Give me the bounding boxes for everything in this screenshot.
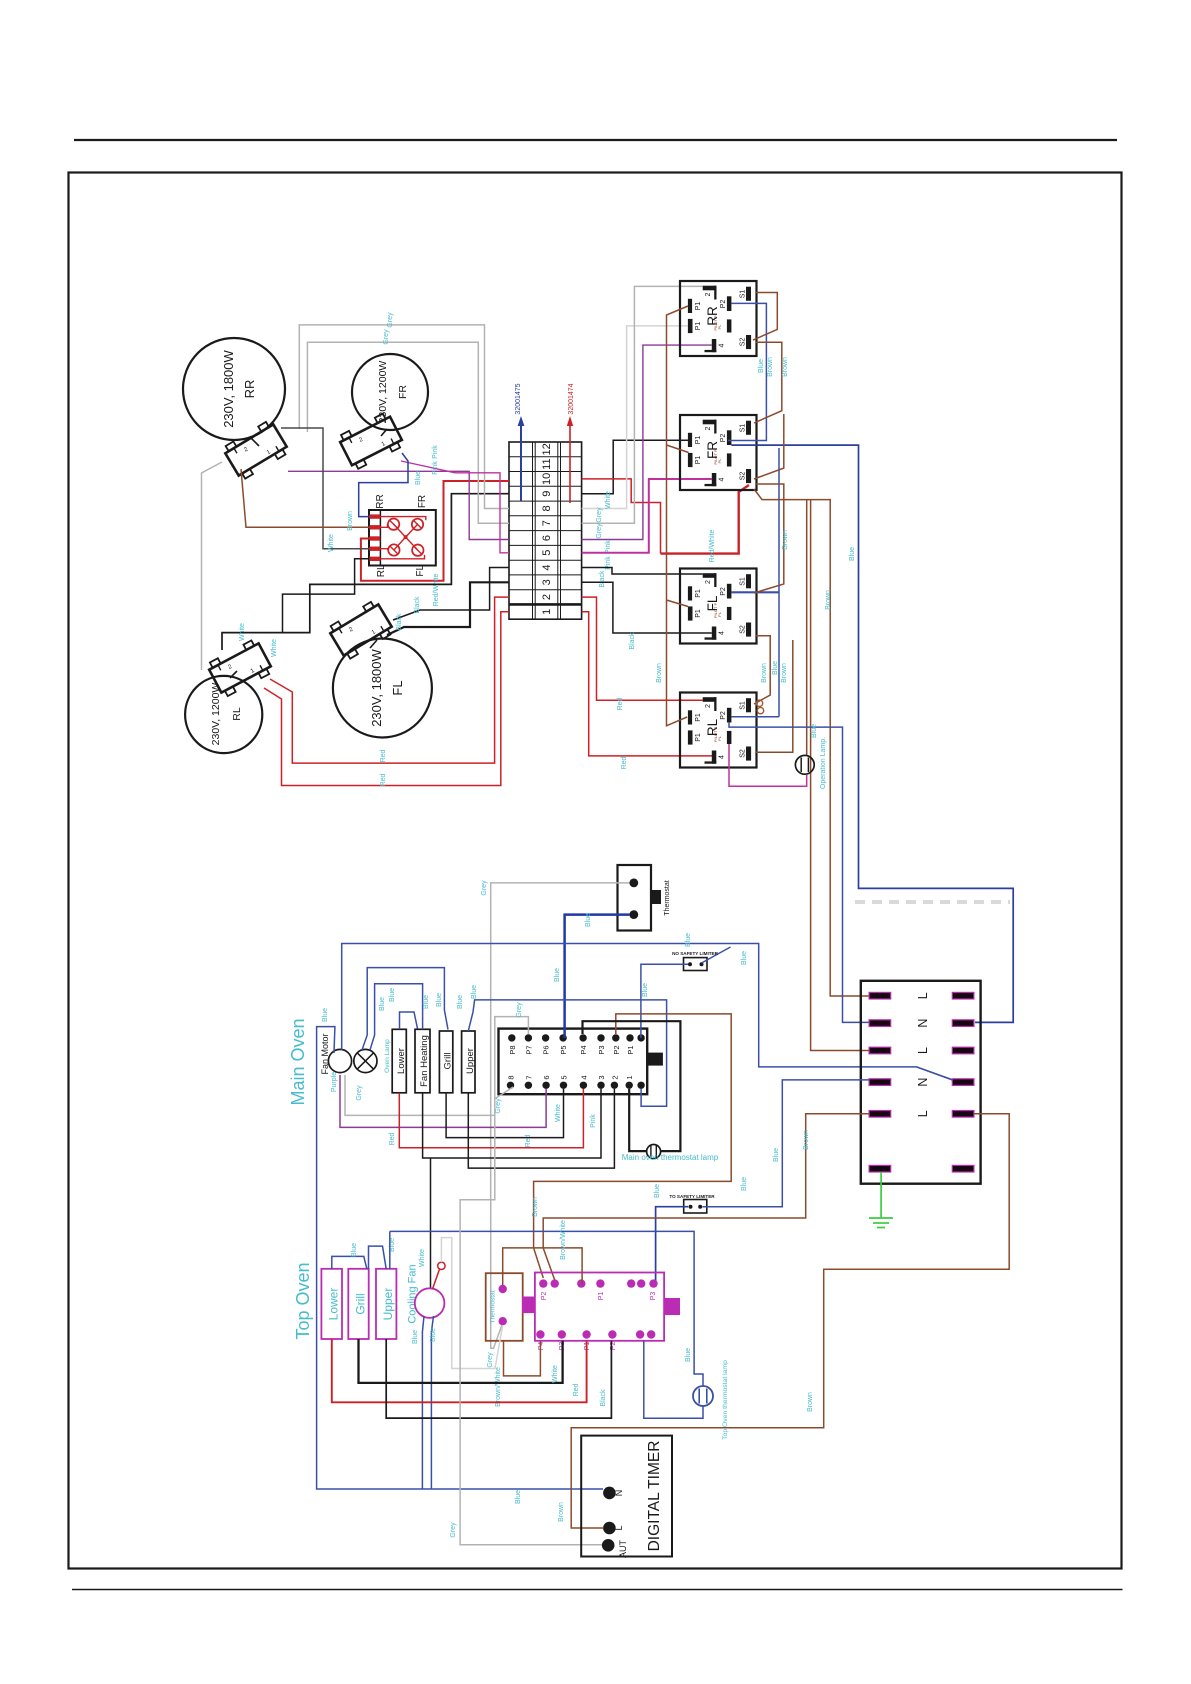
terminal block column lines bbox=[532, 442, 534, 619]
wire brown chain to FR S2 bbox=[754, 414, 784, 479]
mains terminal strip outline bbox=[861, 981, 981, 1184]
energy regulator RR outline bbox=[680, 281, 757, 356]
top rule line bbox=[74, 139, 1117, 141]
svg-text:Brown: Brown bbox=[347, 511, 354, 531]
wire brown P1 stub FR bbox=[667, 445, 689, 453]
wire red terminal1 to connector RL bbox=[264, 612, 509, 786]
svg-text:Black: Black bbox=[600, 1389, 607, 1407]
svg-text:Blue: Blue bbox=[654, 1184, 661, 1198]
svg-text:P1: P1 bbox=[695, 733, 702, 742]
svg-text:Main oven thermostat lamp: Main oven thermostat lamp bbox=[622, 1153, 719, 1162]
svg-text:White: White bbox=[552, 1365, 559, 1383]
svg-text:L: L bbox=[614, 1525, 624, 1530]
svg-text:White: White bbox=[239, 623, 246, 641]
svg-text:Pink: Pink bbox=[432, 461, 439, 475]
svg-text:Black: Black bbox=[414, 596, 421, 614]
wire grey terminal7 to connector RR bbox=[307, 342, 509, 523]
wire blue safety limiter tap bbox=[702, 947, 731, 963]
top oven selector switch outline bbox=[535, 1273, 664, 1341]
svg-text:Grey: Grey bbox=[516, 1002, 523, 1018]
svg-text:White: White bbox=[555, 1104, 562, 1122]
svg-text:32001474: 32001474 bbox=[568, 383, 575, 414]
svg-text:P1: P1 bbox=[626, 1045, 635, 1054]
svg-text:Red: Red bbox=[621, 756, 628, 769]
svg-text:230V, 1800W: 230V, 1800W bbox=[369, 648, 384, 726]
svg-text:Red/White: Red/White bbox=[433, 574, 440, 607]
svg-text:Grey: Grey bbox=[450, 1522, 457, 1538]
svg-text:Blue: Blue bbox=[811, 724, 818, 738]
svg-text:P6: P6 bbox=[542, 1045, 551, 1054]
wire blue limiter2 to P3 bbox=[656, 1207, 688, 1284]
connector for element RL bbox=[206, 638, 273, 698]
wire black terminal9 to connector RL bbox=[222, 494, 509, 650]
svg-text:Upper: Upper bbox=[381, 1288, 395, 1321]
earth symbol bbox=[869, 1217, 893, 1219]
svg-text:P2: P2 bbox=[720, 300, 727, 309]
svg-text:4: 4 bbox=[719, 631, 726, 635]
svg-text:Grey: Grey bbox=[387, 312, 394, 328]
top oven thermostat outline bbox=[486, 1273, 523, 1341]
svg-text:Red: Red bbox=[573, 1383, 580, 1396]
svg-text:L: L bbox=[916, 992, 930, 999]
wire red/white terminal10 to pilot bar3 bbox=[361, 481, 509, 581]
element box Fan Heating bbox=[415, 1029, 430, 1093]
wire blue lamp feed bbox=[390, 1231, 703, 1386]
svg-text:Grey: Grey bbox=[596, 523, 603, 539]
pilot neon lamps bbox=[388, 518, 399, 529]
wire blue FR P2 to strip bbox=[731, 445, 1013, 1022]
wire black pilot bar5 to left bbox=[283, 559, 370, 633]
svg-text:P1: P1 bbox=[695, 456, 702, 465]
svg-text:3: 3 bbox=[597, 1075, 606, 1079]
wire black terminal3 to connector FL bbox=[387, 582, 509, 635]
wire brown terminal strip row3 bbox=[811, 500, 869, 1051]
pilot hook bar4 bbox=[380, 549, 388, 550]
svg-text:6: 6 bbox=[542, 1075, 551, 1079]
wire red terminal2 to switch RL 2 bbox=[582, 597, 703, 700]
wire grey terminal7 to switch RR 2 bbox=[582, 286, 703, 523]
wire black terminal4 to switch FL 2 bbox=[582, 568, 703, 575]
wire blue RL P2 stub bbox=[731, 716, 779, 718]
terminal block row lines bbox=[509, 456, 582, 458]
svg-text:Brown: Brown bbox=[558, 1502, 565, 1522]
svg-text:Blue: Blue bbox=[758, 359, 765, 373]
svg-text:Blue: Blue bbox=[415, 471, 422, 485]
svg-text:2: 2 bbox=[348, 626, 355, 633]
svg-text:Blue: Blue bbox=[322, 1008, 329, 1022]
wire black terminal4 to connector FL bbox=[393, 568, 509, 621]
wire blue lower top to grill top bbox=[332, 1256, 367, 1269]
svg-text:Blue: Blue bbox=[351, 1243, 358, 1257]
svg-text:2: 2 bbox=[705, 704, 712, 708]
wire blue safety limiter to P1 bbox=[641, 964, 688, 1038]
svg-text:9: 9 bbox=[541, 491, 553, 497]
svg-text:S1: S1 bbox=[740, 424, 747, 433]
svg-text:5: 5 bbox=[541, 550, 553, 556]
digital timer outline bbox=[581, 1436, 672, 1557]
pilot hook bar2 bbox=[380, 524, 388, 527]
svg-text:5: 5 bbox=[560, 1075, 569, 1079]
svg-text:Red: Red bbox=[389, 1132, 396, 1145]
svg-text:2: 2 bbox=[705, 426, 712, 430]
svg-text:7: 7 bbox=[524, 1075, 533, 1079]
svg-text:PL: PL bbox=[717, 324, 722, 330]
svg-text:P8: P8 bbox=[508, 1045, 517, 1054]
jumper plugs at RL S1 bbox=[756, 700, 762, 706]
svg-text:P1: P1 bbox=[695, 609, 702, 618]
svg-text:RL: RL bbox=[231, 707, 243, 721]
svg-text:Brown: Brown bbox=[781, 663, 788, 683]
svg-text:P1: P1 bbox=[695, 589, 702, 598]
svg-text:Brown: Brown bbox=[782, 530, 789, 550]
element box Lower top bbox=[321, 1269, 342, 1339]
svg-text:P4: P4 bbox=[538, 1342, 545, 1351]
svg-text:Upper: Upper bbox=[465, 1048, 476, 1074]
wire blue oven lamp to fan heating bbox=[370, 984, 423, 1050]
svg-text:4: 4 bbox=[541, 564, 553, 570]
energy regulator RL outline bbox=[680, 693, 757, 768]
svg-text:8: 8 bbox=[541, 505, 553, 511]
wire grey terminal8 to connector RR bbox=[299, 325, 509, 509]
wire grey pin8 to fan motor bbox=[345, 1075, 513, 1115]
wire red/white thick segment bbox=[661, 485, 750, 554]
wire purple fan motor to pin6 bbox=[340, 1075, 546, 1127]
svg-text:Pink: Pink bbox=[590, 1114, 597, 1128]
main oven thermostat lamp bbox=[647, 1145, 661, 1159]
wire blue RL P2 to strip N bbox=[729, 722, 869, 1022]
wire brown RR S1 to S2 bbox=[753, 293, 777, 341]
wire red lower bottom to switch bbox=[332, 1339, 587, 1402]
svg-text:P4: P4 bbox=[579, 1045, 588, 1054]
wire element FL to connector bbox=[370, 640, 377, 648]
wire pink RL to operation lamp bbox=[729, 744, 807, 786]
connector for element FL bbox=[327, 599, 395, 660]
wire black terminal9 to switch FR P1 bbox=[582, 440, 688, 493]
svg-text:N: N bbox=[614, 1490, 624, 1497]
arrow 32001475 bbox=[520, 424, 522, 501]
svg-text:P2: P2 bbox=[720, 587, 727, 596]
wire element RL to connector bbox=[230, 671, 237, 678]
svg-text:P1: P1 bbox=[598, 1292, 605, 1301]
wire blue connector FR to pilot bar1 bbox=[359, 453, 408, 517]
svg-text:FL: FL bbox=[415, 565, 426, 577]
svg-text:Pink: Pink bbox=[432, 445, 439, 459]
svg-text:S2: S2 bbox=[740, 472, 747, 481]
svg-text:230V, 1800W: 230V, 1800W bbox=[221, 349, 236, 427]
svg-text:Blue: Blue bbox=[379, 997, 386, 1011]
wire blue fan motor to mains bbox=[342, 944, 953, 1081]
wire red terminal1 to switch RL 4 bbox=[582, 612, 712, 756]
svg-text:1: 1 bbox=[541, 609, 553, 615]
svg-text:Grey: Grey bbox=[495, 1098, 502, 1114]
heating element RL 230V 1200W bbox=[185, 676, 262, 753]
svg-text:Top Oven thermostat lamp: Top Oven thermostat lamp bbox=[722, 1360, 729, 1440]
wire brown P1 stub FL bbox=[667, 600, 689, 607]
wire white grill bottom to switch bbox=[359, 1339, 563, 1383]
svg-text:Red: Red bbox=[380, 773, 387, 786]
svg-text:FL: FL bbox=[390, 680, 405, 695]
svg-text:PL: PL bbox=[717, 458, 722, 464]
svg-text:P7: P7 bbox=[524, 1045, 533, 1054]
svg-text:NO SAFETY LIMITER: NO SAFETY LIMITER bbox=[672, 951, 719, 956]
svg-text:Grey: Grey bbox=[356, 1085, 363, 1101]
svg-text:Blue: Blue bbox=[515, 1490, 522, 1504]
svg-text:RR: RR bbox=[375, 494, 386, 508]
wire black lamp to P4 bbox=[583, 1021, 681, 1151]
wire brown RR S2 to FR S1 bbox=[754, 342, 782, 423]
svg-text:White: White bbox=[419, 1249, 426, 1267]
wire blue upper top to lamp feed bbox=[389, 1231, 391, 1269]
wire blue lower to fan heating hop bbox=[400, 1012, 418, 1029]
svg-text:Grey: Grey bbox=[481, 880, 488, 896]
heating element FR 230V 1200W bbox=[352, 354, 428, 430]
svg-text:P2: P2 bbox=[720, 434, 727, 443]
pilot cross wiring bbox=[394, 524, 406, 537]
svg-text:AUT: AUT bbox=[618, 1539, 628, 1558]
element box Lower main bbox=[392, 1029, 406, 1093]
wire white terminal8 to switch RR P1 bbox=[582, 326, 688, 509]
wire pink terminal6 to switch RR 4 bbox=[582, 345, 712, 539]
svg-text:Blue: Blue bbox=[554, 968, 561, 982]
wire black cooling fan supply bbox=[430, 1158, 432, 1289]
svg-text:Blue: Blue bbox=[685, 933, 692, 947]
svg-text:Blue: Blue bbox=[642, 983, 649, 997]
svg-text:RL: RL bbox=[376, 564, 387, 577]
svg-text:Brown/White: Brown/White bbox=[560, 1220, 567, 1260]
main oven selector switch outline bbox=[499, 1029, 648, 1095]
svg-text:P2: P2 bbox=[612, 1045, 621, 1054]
energy regulator FR outline bbox=[680, 415, 757, 490]
wire brown thermostat to P4 bbox=[504, 1341, 541, 1376]
svg-text:4: 4 bbox=[719, 343, 726, 347]
wire pink terminal5 to switch FR 4 bbox=[582, 479, 712, 553]
element box Grill top bbox=[348, 1269, 368, 1339]
svg-text:Brown: Brown bbox=[656, 663, 663, 683]
svg-text:2: 2 bbox=[227, 664, 233, 671]
wire blue fan motor to timer N bbox=[317, 1027, 603, 1489]
svg-text:S2: S2 bbox=[740, 625, 747, 634]
svg-text:Blue: Blue bbox=[772, 661, 779, 675]
wire brown strip L to top oven P2 bbox=[543, 1114, 869, 1280]
connector for element FR bbox=[337, 411, 404, 470]
svg-text:Blue: Blue bbox=[423, 995, 430, 1009]
svg-text:Thermostat: Thermostat bbox=[490, 1290, 497, 1323]
svg-text:Blue: Blue bbox=[457, 995, 464, 1009]
svg-text:Blue: Blue bbox=[741, 951, 748, 965]
svg-text:P1: P1 bbox=[695, 322, 702, 331]
wire brown connector RR to pilot bar2 bbox=[241, 469, 370, 527]
svg-text:Brown/White: Brown/White bbox=[495, 1367, 502, 1407]
svg-text:White: White bbox=[328, 534, 335, 552]
svg-text:Blue: Blue bbox=[412, 1330, 419, 1344]
wire blue cooling fan lead a bbox=[422, 1316, 424, 1489]
svg-text:N: N bbox=[916, 1078, 930, 1087]
svg-text:12: 12 bbox=[541, 443, 553, 455]
svg-text:FR: FR bbox=[397, 385, 409, 399]
svg-text:P1: P1 bbox=[695, 436, 702, 445]
wire blue FL P2 stub bbox=[731, 591, 779, 593]
svg-text:Cooling Fan: Cooling Fan bbox=[407, 1264, 419, 1323]
svg-text:P2: P2 bbox=[541, 1292, 548, 1301]
wire brown thermostat to P1 bbox=[503, 1248, 582, 1285]
wire blue lamp return to switch bbox=[644, 1341, 703, 1419]
svg-text:S2: S2 bbox=[740, 338, 747, 347]
operation lamp bbox=[795, 755, 814, 774]
svg-text:Grey: Grey bbox=[487, 1352, 494, 1368]
svg-text:S1: S1 bbox=[740, 701, 747, 710]
svg-text:TO SAFETY LIMITER: TO SAFETY LIMITER bbox=[669, 1194, 715, 1199]
energy regulator FL outline bbox=[680, 569, 757, 644]
svg-text:4: 4 bbox=[579, 1075, 588, 1079]
svg-text:Black: Black bbox=[629, 632, 636, 650]
wire brown operation lamp feed bbox=[806, 500, 808, 756]
faint dashed marking bbox=[855, 900, 1010, 904]
wire blue upper to P1 bottom bbox=[468, 1000, 666, 1106]
wire black terminal3 to switch FL 4 bbox=[582, 582, 712, 633]
svg-text:Blue: Blue bbox=[585, 913, 592, 927]
pilot terminal bars (red) bbox=[370, 514, 381, 518]
svg-text:Brown: Brown bbox=[782, 357, 789, 377]
wire green earth bbox=[880, 1172, 882, 1218]
svg-text:L: L bbox=[916, 1047, 930, 1054]
wire pink pin3 to fan heating bbox=[423, 1089, 601, 1158]
svg-text:P5: P5 bbox=[559, 1045, 568, 1054]
svg-text:FR: FR bbox=[417, 495, 428, 508]
wire brown RL S2 up bbox=[756, 640, 793, 752]
wire white connector RR to pilot bar4 bbox=[281, 428, 370, 549]
wire blue thermostat to P5 bbox=[565, 915, 630, 1038]
svg-text:Brown: Brown bbox=[761, 663, 768, 683]
svg-text:Grill: Grill bbox=[354, 1293, 368, 1314]
wire blue P2 chain FL RL bbox=[778, 448, 780, 717]
pilot lamp assembly outline bbox=[369, 510, 436, 566]
svg-text:S1: S1 bbox=[740, 290, 747, 299]
connector for element RR bbox=[222, 419, 290, 480]
svg-text:1: 1 bbox=[625, 1075, 634, 1079]
schematic border frame bbox=[69, 173, 1122, 1569]
svg-text:4: 4 bbox=[719, 755, 726, 759]
svg-text:Operation Lamp.: Operation Lamp. bbox=[820, 737, 827, 789]
wire grey timer AUT bbox=[460, 1115, 603, 1544]
wire white cooling fan stem bbox=[441, 1238, 502, 1369]
svg-text:L: L bbox=[916, 1110, 930, 1117]
svg-text:2: 2 bbox=[541, 594, 553, 600]
safety limiter main outline bbox=[684, 958, 708, 971]
svg-text:11: 11 bbox=[541, 458, 553, 469]
svg-text:P2: P2 bbox=[720, 711, 727, 720]
svg-text:Blue: Blue bbox=[430, 1328, 437, 1342]
svg-text:Brown: Brown bbox=[532, 1197, 539, 1217]
heating element FL 230V 1800W bbox=[333, 639, 432, 738]
cooling fan thermal cutout bbox=[438, 1262, 445, 1269]
svg-text:Red: Red bbox=[617, 697, 624, 710]
svg-text:32001475: 32001475 bbox=[515, 383, 522, 414]
wire brown strip L to timer L bbox=[571, 1114, 1009, 1528]
svg-text:Blue: Blue bbox=[436, 993, 443, 1007]
wire brown FR S2 to mains strip L bbox=[754, 489, 869, 996]
svg-text:Grill: Grill bbox=[443, 1053, 454, 1070]
element box Upper main bbox=[462, 1031, 475, 1093]
svg-text:2: 2 bbox=[610, 1075, 619, 1079]
svg-text:White: White bbox=[271, 639, 278, 657]
svg-text:N: N bbox=[916, 1019, 930, 1028]
top oven thermostat lamp bbox=[693, 1386, 713, 1406]
heating element RR 230V 1800W bbox=[183, 338, 285, 440]
wire pink terminal5 to connector FR bbox=[401, 461, 509, 553]
svg-text:PL: PL bbox=[717, 611, 722, 617]
svg-text:P3: P3 bbox=[650, 1292, 657, 1301]
wire white connector RL up bbox=[202, 462, 223, 670]
svg-text:7: 7 bbox=[541, 520, 553, 526]
svg-text:Main Oven: Main Oven bbox=[288, 1018, 308, 1105]
terminal block bbox=[509, 442, 582, 619]
svg-text:2: 2 bbox=[705, 580, 712, 584]
svg-text:Fan Heating: Fan Heating bbox=[419, 1035, 430, 1087]
wire red pin4 to lower bbox=[399, 1089, 583, 1148]
wire brown P2 to top oven switch bbox=[534, 1014, 732, 1278]
wire blue limiter2 to strip N bbox=[703, 1080, 870, 1207]
svg-text:S2: S2 bbox=[740, 749, 747, 758]
svg-text:White: White bbox=[605, 491, 612, 509]
element box Upper top bbox=[376, 1269, 396, 1339]
svg-text:P3: P3 bbox=[597, 1045, 606, 1054]
bottom rule line bbox=[72, 1589, 1123, 1591]
svg-text:Top Oven: Top Oven bbox=[293, 1262, 313, 1339]
wire blue strip diagonal link bbox=[917, 1067, 953, 1080]
svg-text:4: 4 bbox=[719, 477, 726, 481]
oven lamp bbox=[354, 1049, 377, 1072]
svg-text:Grey: Grey bbox=[383, 329, 390, 345]
svg-text:Lower: Lower bbox=[396, 1048, 407, 1074]
svg-text:Red: Red bbox=[380, 749, 387, 762]
wire grey P7 loop bbox=[495, 1017, 529, 1099]
safety limiter top outline bbox=[684, 1200, 707, 1214]
wire element FR to connector bbox=[381, 429, 387, 436]
arrow 32001474 bbox=[569, 424, 571, 503]
main oven thermostat outline bbox=[618, 865, 652, 931]
wire blue RR P2 to FR P2 bbox=[728, 303, 766, 440]
svg-text:Blue: Blue bbox=[849, 547, 856, 561]
wire black upper bottom to switch bbox=[386, 1339, 611, 1418]
svg-text:Red/White: Red/White bbox=[709, 530, 716, 563]
svg-text:Pink: Pink bbox=[605, 540, 612, 554]
wire grey thermostat to top oven thermostat bbox=[491, 883, 630, 1348]
svg-text:S1: S1 bbox=[740, 577, 747, 586]
svg-text:Oven Lamp: Oven Lamp bbox=[384, 1039, 391, 1073]
svg-text:2: 2 bbox=[705, 292, 712, 296]
svg-text:Red: Red bbox=[525, 1134, 532, 1147]
svg-text:8: 8 bbox=[507, 1075, 516, 1079]
wire brown FL S2 to RL S1 bbox=[754, 636, 770, 704]
svg-text:Brown: Brown bbox=[807, 1392, 814, 1412]
svg-text:2: 2 bbox=[243, 446, 250, 453]
svg-text:Brown: Brown bbox=[825, 590, 832, 610]
svg-text:Grey: Grey bbox=[596, 507, 603, 523]
svg-text:Lower: Lower bbox=[327, 1288, 341, 1321]
svg-text:P1: P1 bbox=[695, 713, 702, 722]
svg-text:3: 3 bbox=[541, 579, 553, 585]
wire element RR to connector bbox=[250, 437, 259, 446]
svg-text:Thermostat: Thermostat bbox=[664, 880, 671, 915]
element box Grill main bbox=[439, 1031, 452, 1093]
svg-text:6: 6 bbox=[541, 535, 553, 541]
wire pink terminal6 to connector RR bbox=[288, 471, 509, 539]
fan motor bbox=[328, 1049, 351, 1072]
svg-text:Fan Motor: Fan Motor bbox=[320, 1033, 330, 1074]
svg-text:DIGITAL TIMER: DIGITAL TIMER bbox=[646, 1441, 663, 1552]
wire red/white terminal10 to switch FR S2 bbox=[582, 479, 661, 554]
wire white pin5 to grill bbox=[446, 1089, 563, 1138]
